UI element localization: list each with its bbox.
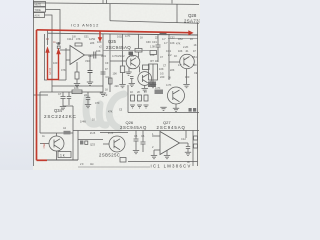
svg-text:C9: C9	[105, 61, 109, 65]
wire right border	[197, 23, 199, 166]
transistor Q25	[126, 55, 140, 69]
transistor Q26a	[138, 72, 152, 86]
svg-text:Q34: Q34	[54, 108, 63, 113]
svg-text:10K: 10K	[113, 73, 118, 76]
arrow red up x58	[56, 48, 60, 55]
wire ic1 out	[180, 142, 189, 144]
svg-text:C01: C01	[84, 36, 89, 39]
wire red bottom stub	[37, 159, 48, 161]
svg-text:10K: 10K	[159, 67, 164, 71]
transistor Q33	[109, 136, 125, 152]
resistor Rb2	[138, 95, 142, 101]
scan noise	[33, 0, 200, 170]
wire ic1 in1	[152, 135, 160, 137]
ground g103	[100, 93, 106, 96]
svg-text:2.2: 2.2	[168, 54, 172, 57]
wire red top	[37, 30, 190, 33]
arrow red down x100	[98, 37, 103, 42]
Q25 stage	[100, 34, 156, 96]
svg-text:0.5: 0.5	[160, 73, 164, 76]
wire x73 drop	[72, 106, 74, 160]
component t1 lower	[148, 82, 156, 88]
wire red left	[36, 30, 38, 160]
wire ic3 box edge	[102, 34, 104, 92]
svg-text:4.7K: 4.7K	[155, 86, 161, 90]
wire ic1 in2	[154, 150, 160, 155]
ground gic1b	[164, 156, 170, 159]
wire ic1 gnd pin	[166, 151, 168, 156]
resistor R122	[120, 66, 124, 73]
svg-text:1.5K: 1.5K	[150, 46, 155, 49]
svg-text:1K: 1K	[174, 54, 177, 58]
svg-text:0.01: 0.01	[101, 54, 107, 58]
ground gb1	[130, 105, 135, 108]
wire tone feed	[46, 10, 61, 45]
capacitor C90	[88, 71, 93, 73]
wire q34 base	[40, 143, 49, 145]
svg-text:4.7K: 4.7K	[166, 83, 172, 87]
ground g176	[173, 108, 179, 111]
svg-text:25C: 25C	[42, 143, 46, 149]
wire q33 stub	[103, 143, 109, 145]
ground gcb1	[133, 151, 139, 154]
arrow red right	[188, 30, 193, 35]
component mark 120	[120, 158, 126, 163]
svg-text:Q25: Q25	[108, 39, 117, 44]
svg-text:100: 100	[53, 61, 58, 65]
capacitor c130	[130, 77, 134, 84]
wire t1 gnd	[152, 80, 154, 84]
wire q28 base	[169, 34, 180, 80]
svg-text:1/2W: 1/2W	[89, 37, 96, 41]
capacitor c69	[67, 92, 71, 105]
svg-text:2SC945AQ: 2SC945AQ	[106, 45, 131, 50]
wire ic3 in1	[60, 49, 70, 51]
wire x186	[185, 131, 187, 139]
ground gb2	[137, 105, 142, 108]
wire bottom faint	[78, 166, 150, 168]
capacitor c103	[101, 72, 106, 74]
wire bottom rail right	[128, 161, 198, 163]
svg-text:4Ω: 4Ω	[90, 162, 93, 166]
ground g77	[74, 84, 80, 87]
svg-text:C32: C32	[170, 37, 175, 40]
wire ic3 fb	[66, 59, 70, 61]
component on rail	[64, 131, 71, 135]
wire rail86	[52, 85, 103, 87]
resistor R10K	[72, 90, 82, 94]
svg-text:2K: 2K	[137, 90, 140, 94]
ground g130b	[129, 83, 135, 86]
svg-text:IC3 AN612: IC3 AN612	[71, 23, 99, 28]
component on rail	[160, 32, 167, 35]
svg-text:1K: 1K	[130, 90, 133, 94]
svg-text:47K: 47K	[176, 43, 181, 46]
wire top tick 3	[171, 0, 173, 4]
wire left border	[33, 0, 35, 166]
svg-text:16Ω: 16Ω	[117, 35, 122, 39]
svg-text:1K: 1K	[105, 89, 108, 92]
wire top border	[34, 3, 200, 5]
wire r122	[122, 34, 124, 66]
arrow red up x47	[45, 46, 49, 53]
tiny value labels	[42, 34, 197, 166]
svg-text:IFT: IFT	[150, 59, 154, 63]
wire r138 up	[138, 34, 140, 57]
wire q25 base feed	[110, 34, 126, 92]
wire right col 1	[192, 131, 194, 167]
svg-text:2 F: 2 F	[80, 162, 84, 166]
capacitor c158	[156, 34, 161, 62]
svg-text:47K: 47K	[108, 111, 113, 114]
wire h106	[63, 105, 73, 107]
wire q27 e	[175, 104, 177, 108]
ground g193	[183, 85, 189, 88]
svg-text:C2: C2	[104, 93, 108, 97]
svg-text:1K: 1K	[168, 77, 171, 80]
ground gout	[185, 152, 191, 155]
svg-text:22K: 22K	[170, 69, 175, 72]
svg-text:C30: C30	[146, 41, 151, 44]
svg-text:10K: 10K	[170, 41, 175, 45]
wire box edge x128	[127, 85, 129, 113]
wire r77 gnd	[76, 79, 78, 84]
svg-text:C6: C6	[141, 134, 145, 138]
svg-text:1K: 1K	[194, 44, 197, 47]
svg-text:10K: 10K	[97, 40, 102, 44]
svg-text:Q28: Q28	[188, 13, 197, 18]
ground gic1a	[151, 156, 157, 159]
resistor R150	[150, 51, 157, 55]
svg-text:#x B: #x B	[90, 131, 95, 135]
svg-text:C31: C31	[152, 40, 157, 44]
ground g88	[85, 105, 91, 108]
wire q25-q26	[139, 67, 141, 73]
wire left low rail	[40, 132, 73, 134]
capacitor cb2	[141, 131, 146, 153]
transformer T1	[149, 64, 158, 80]
ground gb3	[144, 105, 149, 108]
svg-text:.01: .01	[185, 50, 189, 53]
resistor R142	[143, 65, 150, 70]
wire top tick 2	[106, 0, 108, 4]
wire double line	[100, 132, 128, 134]
ground g146	[142, 89, 148, 92]
svg-text:C12: C12	[181, 137, 186, 141]
wire x40 drop	[39, 92, 41, 133]
wire q26 e gnd	[144, 85, 146, 88]
wire q28 rail	[110, 21, 199, 23]
svg-text:2SB525C: 2SB525C	[99, 153, 120, 158]
svg-text:2x B: 2x B	[108, 131, 113, 135]
svg-text:IC1 LM386CV: IC1 LM386CV	[151, 164, 192, 169]
svg-text:1.6: 1.6	[56, 42, 60, 45]
resistor Rb1	[131, 95, 135, 101]
op-amp IC3	[70, 46, 85, 65]
svg-text:VR4: VR4	[85, 59, 91, 63]
right stage	[128, 32, 199, 112]
svg-text:2.2K: 2.2K	[129, 54, 135, 58]
svg-text:100: 100	[193, 64, 198, 67]
wire q28 drop2	[176, 4, 178, 23]
svg-text:2SA733: 2SA733	[184, 18, 200, 23]
node AGN box	[34, 13, 45, 18]
resistor Rb3	[144, 95, 148, 101]
label 1k box	[58, 152, 71, 158]
svg-text:2.2K: 2.2K	[183, 45, 189, 49]
ground g122	[119, 85, 125, 88]
svg-text:2SC945AQ: 2SC945AQ	[120, 125, 147, 130]
wire right rail2	[168, 38, 198, 40]
svg-text:220: 220	[160, 75, 165, 79]
svg-text:220: 220	[115, 85, 120, 88]
svg-text:1/8: 1/8	[72, 36, 76, 39]
wire ic3 in2	[65, 48, 67, 80]
svg-text:1K: 1K	[155, 60, 158, 63]
transistor Q28	[180, 54, 195, 69]
wire r122 gnd	[122, 73, 124, 85]
wire under U	[59, 79, 67, 81]
wire main rail	[48, 33, 198, 35]
resistor R138	[135, 49, 142, 53]
ground g163	[160, 107, 166, 110]
ground g130	[125, 72, 131, 75]
wire q34 up	[56, 133, 58, 136]
component marks x58	[57, 42, 60, 44]
schematic paper area	[33, 0, 200, 170]
svg-text:4.7: 4.7	[162, 37, 166, 41]
svg-text:C5: C5	[134, 134, 138, 138]
svg-text:0.01: 0.01	[166, 49, 172, 53]
capacitor cb1	[134, 131, 139, 151]
wire q28 drop	[109, 4, 111, 21]
svg-text:R52: R52	[178, 37, 183, 41]
capacitor C出	[94, 52, 96, 59]
svg-text:MUTE: MUTE	[35, 4, 42, 6]
grey wires	[34, 0, 200, 166]
wire q25 e	[128, 68, 130, 72]
red highlight path	[37, 30, 190, 161]
svg-text:10K: 10K	[74, 86, 79, 90]
svg-text:4.7: 4.7	[178, 64, 182, 67]
svg-text:10K: 10K	[178, 50, 183, 53]
wire q25 box top	[103, 50, 150, 52]
wire bottom box top	[73, 130, 199, 132]
wire box edge x78	[77, 131, 79, 161]
wire bottom rail	[37, 159, 79, 161]
transistor Q34	[49, 136, 64, 151]
svg-text:4.7K: 4.7K	[125, 34, 131, 38]
red tiny annotations	[42, 68, 52, 149]
wire ic3 out	[85, 54, 104, 56]
transistor Q27	[168, 87, 185, 104]
capacitor cout	[186, 143, 190, 152]
wire top tick 1	[102, 0, 104, 4]
wire rail92	[40, 91, 103, 93]
svg-text:4.7: 4.7	[164, 42, 168, 45]
svg-text:1/4W: 1/4W	[80, 121, 86, 124]
wire cap gnd	[89, 73, 91, 83]
watermark letters	[86, 94, 124, 128]
node MUTE box	[34, 2, 46, 7]
svg-text:100: 100	[185, 75, 190, 79]
svg-text:C115: C115	[48, 68, 52, 75]
svg-text:3F: 3F	[187, 160, 190, 164]
svg-text:2SC945AQ: 2SC945AQ	[157, 125, 186, 130]
ground g63	[60, 107, 66, 110]
svg-text:2SC2242KC: 2SC2242KC	[44, 114, 77, 119]
resistor R77	[75, 72, 79, 79]
svg-text:1K: 1K	[140, 37, 143, 40]
wire box boundary y112	[128, 112, 199, 114]
svg-text:Q33: Q33	[90, 143, 95, 147]
op-amp IC1	[160, 132, 180, 155]
wire q28 e	[186, 69, 188, 84]
svg-text:TONE: TONE	[35, 10, 42, 12]
ground g153	[150, 85, 156, 88]
wire r77	[76, 62, 78, 72]
wire red U	[48, 53, 59, 80]
svg-text:47K: 47K	[76, 37, 81, 41]
wire red drop x100	[99, 32, 101, 38]
svg-text:AGN: AGN	[35, 14, 40, 17]
wire branch x44	[45, 34, 48, 80]
wire sub box y139.5	[78, 139, 103, 141]
svg-text:47K: 47K	[61, 68, 66, 72]
svg-text:22K: 22K	[90, 42, 95, 45]
capacitor c88	[86, 92, 90, 104]
resistor R155	[155, 90, 164, 95]
wire agn feed	[45, 15, 53, 92]
wire node x47	[47, 30, 49, 45]
svg-text:10K: 10K	[96, 49, 101, 53]
ground g90	[87, 82, 93, 85]
component marks q33	[80, 141, 83, 145]
svg-text:R61: R61	[192, 55, 197, 59]
svg-text:100: 100	[150, 53, 155, 57]
svg-text:C4x: C4x	[88, 54, 93, 58]
wire q34 down	[56, 151, 58, 160]
capacitor c63	[61, 92, 66, 106]
resistor Rtop	[75, 43, 82, 46]
wire out drop	[89, 55, 91, 70]
svg-text:470: 470	[95, 101, 100, 105]
resistor R110	[109, 78, 113, 84]
wire h95	[34, 94, 49, 96]
resistor R128	[129, 52, 134, 56]
svg-text:4.7K/2SC2: 4.7K/2SC2	[112, 54, 125, 58]
svg-text:C7: C7	[58, 92, 62, 96]
connector marks right	[189, 108, 192, 112]
node TONE box	[34, 7, 46, 12]
bottom section	[34, 51, 200, 161]
svg-text:1 k: 1 k	[60, 154, 65, 158]
